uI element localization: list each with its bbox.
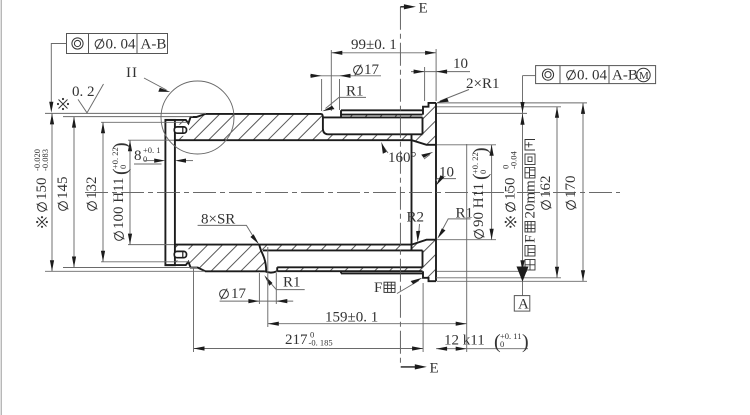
svg-text:E: E — [430, 361, 439, 377]
dimension D150F vertical + FCF leader — [520, 76, 524, 282]
label D145 (rotated) — [55, 177, 71, 211]
svg-text:0. 2: 0. 2 — [72, 84, 95, 100]
dimension D100 left vertical — [128, 140, 132, 244]
outline: top pocket ceiling — [323, 116, 423, 118]
svg-text:12 k11: 12 k11 — [444, 333, 485, 349]
left flange (retaining ring) — [165, 120, 175, 265]
outline: top raised silhouette band — [341, 110, 423, 117]
svg-text:170: 170 — [563, 176, 579, 199]
outline: bottom pocket left wall — [259, 245, 266, 272]
svg-text:132: 132 — [84, 177, 100, 200]
label range note: distance within 20mm of face F (rotated CJK column) — [523, 140, 539, 271]
outline: top pocket left wall (SR pocket) — [322, 114, 328, 134]
svg-text:A-B: A-B — [612, 68, 638, 84]
svg-text:F: F — [523, 235, 539, 243]
ext line D100 bottom — [128, 244, 174, 246]
label 8xSR — [198, 212, 259, 245]
section arrow E top — [400, 1, 427, 17]
hatched section: bottom main band — [174, 245, 266, 272]
svg-text:): ) — [522, 331, 529, 353]
ext line D145 bottom — [63, 267, 197, 269]
label 2xR1 — [437, 76, 500, 103]
svg-text:F: F — [374, 280, 382, 296]
outline: bottom bore line D100 — [174, 244, 412, 246]
outline: top flange steps 2xR1 — [423, 103, 436, 115]
svg-text:10: 10 — [453, 56, 468, 72]
outline: top thin wall top edge — [341, 114, 423, 116]
datum A triangle — [514, 267, 530, 313]
surface finish 0.2 with ref mark — [57, 84, 104, 113]
outline: top outer profile — [165, 114, 321, 124]
label 160 degrees — [381, 142, 433, 166]
svg-text:99±0. 1: 99±0. 1 — [351, 37, 397, 53]
svg-text:II: II — [126, 65, 138, 81]
label D100 H11 +0.22/0 (rotated) — [110, 142, 132, 240]
ext line D100 top — [128, 139, 174, 141]
dimension D162 vertical — [555, 107, 559, 278]
label D170 (rotated) — [563, 176, 579, 210]
outline: flange right face — [435, 103, 437, 281]
label D132 (rotated) — [84, 177, 100, 211]
ext line D132 bottom — [101, 261, 190, 263]
svg-text:20mm: 20mm — [523, 180, 539, 219]
outline: bottom thin wall — [277, 267, 422, 271]
svg-text:): ) — [110, 142, 132, 149]
outline: top 160deg taper — [412, 140, 436, 145]
svg-text:0: 0 — [478, 170, 488, 174]
dimension D17 bottom — [220, 273, 294, 304]
svg-text:R2: R2 — [407, 210, 425, 226]
ext line D162 top — [437, 106, 561, 108]
outline: pocket right wall bottom — [412, 250, 423, 267]
snap ring groove halo bottom — [173, 249, 189, 260]
ext line D145 top — [63, 116, 193, 118]
ext line D150F top — [437, 112, 527, 114]
svg-text:A-B: A-B — [141, 37, 167, 53]
svg-text:M: M — [639, 70, 649, 82]
svg-text:0: 0 — [500, 339, 504, 349]
hatched section: bottom outer thin wall — [277, 267, 422, 271]
svg-text:17: 17 — [364, 62, 380, 78]
ext line D150F bottom — [437, 270, 527, 272]
svg-text:8: 8 — [134, 148, 142, 164]
dimension D150 left vertical — [50, 113, 54, 271]
snap ring pin section top — [174, 127, 186, 133]
dimension 8 +0.1/0 (flange width) — [134, 145, 193, 164]
svg-text:2×R1: 2×R1 — [466, 76, 499, 92]
centerline horizontal — [85, 191, 620, 193]
svg-text:160°: 160° — [388, 150, 417, 166]
svg-text:17: 17 — [231, 286, 247, 302]
outline: bottom 160deg taper — [412, 240, 436, 245]
hatched section: top right flange — [412, 103, 437, 145]
snap ring groove halo top — [173, 125, 189, 136]
snap ring pin section bottom — [174, 251, 186, 257]
dimension D90 vertical — [490, 145, 494, 240]
label F face — [374, 278, 422, 296]
label R2 mid — [407, 210, 425, 243]
dimension D17 top — [310, 62, 381, 111]
section arrow E bottom — [401, 361, 439, 377]
ext line D170 top — [437, 102, 587, 104]
FCF left: concentricity 0.04 A-B — [49, 34, 167, 113]
svg-text:-0.04: -0.04 — [509, 151, 519, 169]
outline: bottom outer profile — [165, 262, 265, 272]
outline: bottom silhouette band — [341, 271, 423, 273]
label D150 with tolerance (rotated) — [32, 149, 50, 228]
hatched section: top main band — [174, 114, 412, 140]
label D90 H11 +0.22/0 (rotated) — [470, 147, 492, 238]
outline: top pocket floor — [328, 133, 412, 135]
ext line D90 bottom — [437, 239, 496, 241]
label 10 mid (step width) — [436, 165, 456, 186]
ext line D150 top — [45, 112, 206, 114]
ext line D90 top — [437, 144, 496, 146]
dimension 99±0.1 — [331, 37, 436, 111]
svg-text:162: 162 — [538, 176, 554, 199]
svg-text:E: E — [419, 1, 428, 17]
label R1 top pocket — [322, 84, 366, 112]
svg-text:150: 150 — [503, 178, 519, 201]
svg-text:A: A — [518, 296, 529, 312]
outline: pocket right wall top — [412, 117, 423, 134]
dimension 217 0/-0.185 — [194, 268, 424, 352]
dimension D170 vertical — [581, 103, 585, 281]
outline: bottom inner strip lower edge — [263, 249, 412, 251]
hatched section: bottom right flange — [412, 240, 437, 282]
hatched section: bottom inner thin wall strip — [260, 245, 412, 251]
dimension D132 left vertical — [101, 122, 105, 261]
label R1 bottom — [264, 275, 304, 291]
outline: bore step edge vertical — [411, 134, 413, 250]
outline: top bore line D100 — [174, 139, 412, 141]
drawing sheet border (left edge) — [0, 0, 2, 415]
svg-text:217: 217 — [285, 332, 308, 348]
label R1 mid — [437, 206, 473, 239]
svg-text:-0. 185: -0. 185 — [309, 338, 333, 348]
FCF right: concentricity 0.04 A-B(M) — [523, 66, 656, 84]
detail label II — [126, 65, 170, 92]
svg-text:R1: R1 — [283, 275, 301, 291]
ext line D162 bottom — [436, 277, 561, 279]
dimension 10 top — [411, 56, 470, 101]
label D162 (rotated) — [538, 176, 554, 210]
svg-text:0: 0 — [143, 154, 147, 164]
section line E-E vertical — [399, 7, 401, 365]
svg-text:150: 150 — [34, 178, 50, 201]
svg-text:90 H11: 90 H11 — [471, 183, 487, 227]
dimension 159±0.1 — [268, 247, 467, 327]
svg-text:0: 0 — [118, 165, 128, 169]
svg-text:159±0. 1: 159±0. 1 — [325, 310, 378, 326]
svg-text:-0.083: -0.083 — [40, 149, 50, 171]
detail circle II — [161, 81, 234, 154]
svg-text:145: 145 — [55, 177, 71, 200]
dimension 12 k11 +0.11/0 — [436, 144, 529, 353]
svg-text:): ) — [470, 147, 492, 154]
dimension D145 left vertical — [72, 117, 76, 268]
svg-text:100 H11: 100 H11 — [111, 177, 127, 229]
svg-text:0. 04: 0. 04 — [577, 68, 608, 84]
outline: bottom opening far-side arc — [265, 271, 277, 272]
outline: bottom flange steps / F face — [423, 271, 436, 281]
ext line D170 bottom — [437, 280, 587, 282]
svg-text:0. 04: 0. 04 — [106, 37, 137, 53]
label D150F 0/-0.04 (rotated) — [501, 151, 519, 228]
hatched section: top outer thin wall — [341, 115, 423, 118]
ext line D132 top — [101, 121, 188, 123]
ext line D150 bottom — [45, 270, 205, 272]
